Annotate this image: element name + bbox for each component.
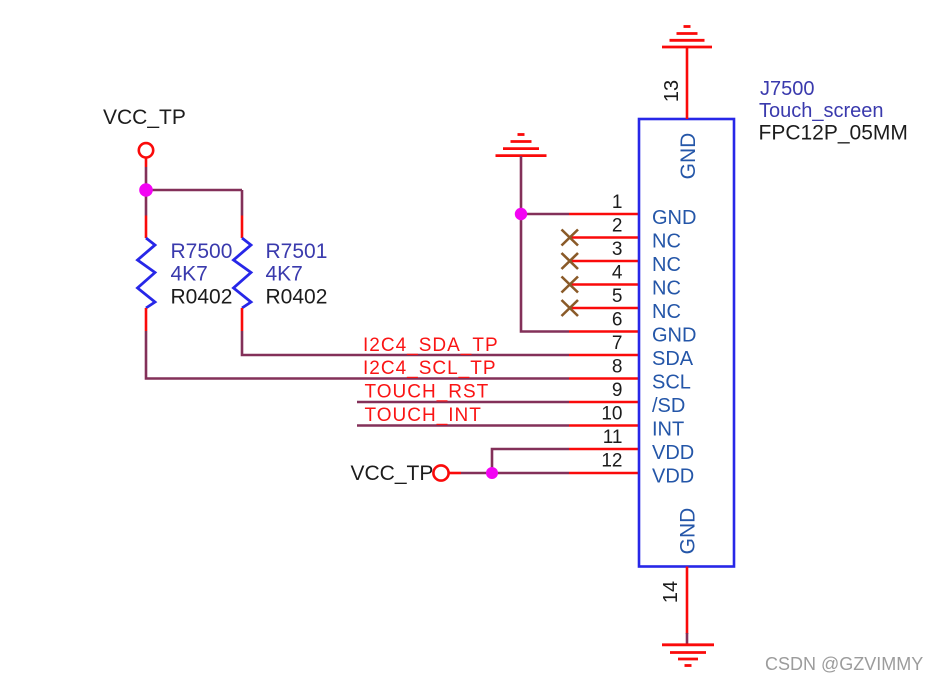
wire TOUCH_RST net [357,401,569,404]
svg-text:10: 10 [601,404,622,425]
svg-text:GND: GND [677,508,700,555]
resistor R7501 top pin (red) [241,216,244,239]
resistor R7501 bottom pin (red) [241,308,244,331]
junction dot at pin1 branch [515,208,527,220]
wire pin14 to ground (maroon) [686,633,689,645]
ground (top right) bars [662,27,712,48]
svg-text:GND: GND [652,207,696,229]
wire R7501 bottom to SDA net [242,331,569,355]
pin names [652,207,696,488]
svg-text:NC: NC [652,231,681,253]
node VCC_TP top port circle [139,143,153,157]
svg-text:I2C4_SCL_TP: I2C4_SCL_TP [363,358,497,379]
no-connect X pin3 [562,253,579,269]
svg-text:2: 2 [612,216,623,237]
connector J7500 body [639,119,734,567]
svg-text:3: 3 [612,239,623,260]
pin numbers 1-12 [601,192,623,472]
svg-text:NC: NC [652,301,681,323]
svg-text:/SD: /SD [652,395,685,417]
svg-text:4K7: 4K7 [171,263,208,286]
svg-text:R0402: R0402 [171,286,233,309]
junction dot VCC branch [486,467,498,479]
svg-text:SDA: SDA [652,348,694,370]
no-connect X pin4 [562,277,579,293]
svg-text:NC: NC [652,254,681,276]
wire VCC_TP vertical to junction and R7500 [145,167,148,216]
svg-text:I2C4_SDA_TP: I2C4_SDA_TP [363,335,499,356]
svg-text:J7500: J7500 [760,78,815,100]
node VCC_TP bottom port circle [433,465,448,480]
wire middle ground stem down to pin1 row and pin6 row [521,156,569,332]
pin 14 wire (red) [686,567,689,635]
svg-text:6: 6 [612,310,623,331]
wire vertical down to R7501 top pin [241,190,244,216]
svg-text:VCC_TP: VCC_TP [351,462,434,485]
svg-text:R0402: R0402 [266,286,328,309]
svg-text:VCC_TP: VCC_TP [103,106,186,129]
no-connect X pin2 [562,230,579,246]
svg-text:8: 8 [612,357,623,378]
svg-text:4K7: 4K7 [266,263,303,286]
junction VCC_TP branch dot [139,183,153,197]
svg-text:TOUCH_RST: TOUCH_RST [365,382,490,403]
wire TOUCH_INT net [357,424,569,427]
ground (bottom) bars [662,645,714,666]
svg-text:Touch_screen: Touch_screen [759,100,884,122]
no-connect X pin5 [562,300,579,316]
wire branch up to pin11 [492,449,569,473]
svg-text:GND: GND [652,325,696,347]
wire pin1 branch [521,213,569,216]
resistor R7500 body zigzag [138,238,156,308]
wire VCC_TP bottom port stub (red) [449,472,461,475]
svg-text:1: 1 [612,192,623,213]
svg-text:12: 12 [601,451,622,472]
pin 13 wire (red) [686,47,689,119]
svg-text:NC: NC [652,278,681,300]
svg-text:7: 7 [612,333,623,354]
resistor R7500 bottom pin (red) [145,308,148,331]
svg-text:11: 11 [603,427,623,448]
svg-text:4: 4 [612,263,623,284]
svg-text:R7501: R7501 [266,240,328,263]
svg-text:VDD: VDD [652,466,694,488]
resistor R7500 top pin (red) [145,216,148,239]
svg-text:13: 13 [661,80,683,102]
wire VCC_TP to pin12 [461,472,569,475]
pin stubs rows 1-12 (red) [569,214,639,473]
resistor R7501 body zigzag [234,238,252,308]
svg-text:9: 9 [612,380,623,401]
svg-text:INT: INT [652,419,684,441]
svg-text:FPC12P_05MM: FPC12P_05MM [759,122,908,145]
svg-text:VDD: VDD [652,442,694,464]
svg-text:SCL: SCL [652,372,691,394]
wire horizontal branch to R7501 [146,189,242,192]
wire R7500 bottom to SCL net [146,331,569,379]
svg-text:TOUCH_INT: TOUCH_INT [365,405,482,426]
ground (middle, above pin1) bars [496,135,547,156]
wire VCC_TP port stub (red) [145,158,148,167]
svg-text:14: 14 [660,581,682,603]
svg-text:R7500: R7500 [171,240,233,263]
svg-text:GND: GND [677,133,700,180]
svg-text:5: 5 [612,286,623,307]
svg-text:CSDN @GZVIMMY: CSDN @GZVIMMY [765,654,923,674]
